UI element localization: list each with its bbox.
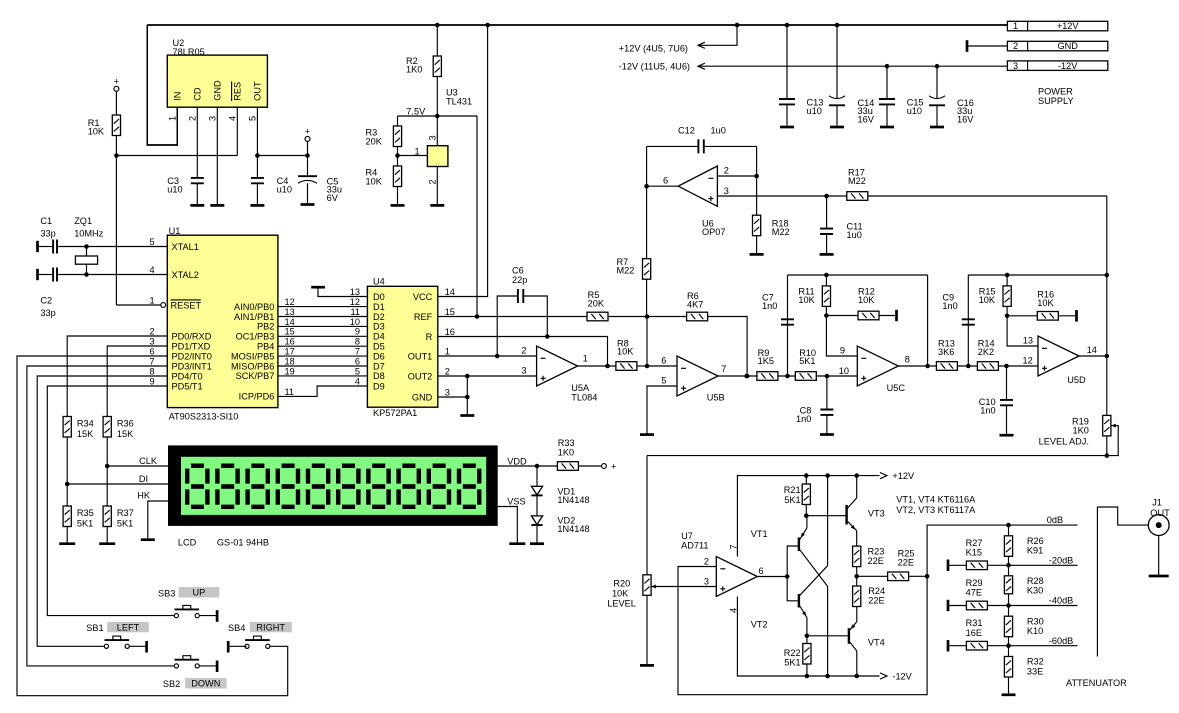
svg-text:7: 7: [728, 544, 738, 549]
wire U7 pin7 +12V: [737, 476, 879, 557]
svg-text:1n0: 1n0: [980, 406, 995, 416]
junction: [804, 513, 809, 518]
wire R34 to R35: [66, 437, 68, 506]
svg-text:R36: R36: [117, 419, 134, 429]
resistor R4 10K: [397, 147, 399, 167]
svg-text:VT2: VT2: [751, 619, 768, 629]
ground: [391, 204, 405, 207]
junction: [465, 374, 470, 379]
svg-text:6: 6: [759, 566, 764, 576]
junction: [744, 374, 749, 379]
transistor VT4: [848, 628, 850, 644]
svg-text:2: 2: [428, 179, 438, 184]
wire level rail: [647, 455, 1107, 457]
svg-text:1N4148: 1N4148: [557, 524, 589, 534]
svg-text:+: +: [305, 127, 310, 137]
ground: [301, 203, 315, 206]
resistor R14 2K2: [977, 362, 998, 371]
junction: [395, 153, 400, 158]
capacitor C13 u10: [786, 25, 788, 99]
wire U5A output: [578, 365, 616, 367]
capacitor C5 33u 6V: [307, 156, 309, 177]
button SB4 RIGHT: [227, 641, 230, 653]
wire R14 to U5D pin12: [998, 365, 1038, 367]
ground: [930, 126, 944, 129]
wire to REF: [476, 116, 478, 317]
wire U5B output: [718, 375, 757, 377]
junction: [1006, 523, 1011, 528]
svg-text:10: 10: [839, 366, 849, 376]
wire PD0 to R34 column: [67, 336, 167, 417]
svg-text:PB2: PB2: [257, 322, 274, 332]
svg-text:u10: u10: [807, 106, 822, 116]
ground: [1149, 575, 1169, 578]
svg-text:R: R: [426, 332, 433, 342]
resistor R33 1K0: [557, 462, 578, 471]
wire U3 pin1: [398, 155, 428, 157]
capacitor C9 1n0: [967, 319, 969, 366]
resistor R3 20K: [397, 116, 399, 126]
svg-text:OUT: OUT: [1150, 508, 1170, 518]
svg-text:VT2, VT3 KT6117A: VT2, VT3 KT6117A: [896, 505, 976, 515]
svg-text:VT3: VT3: [868, 509, 885, 519]
svg-text:13: 13: [285, 307, 295, 317]
ground: [141, 538, 155, 541]
svg-text:3: 3: [428, 135, 438, 140]
svg-text:LEFT: LEFT: [117, 622, 140, 632]
resistor R29 47E: [947, 600, 950, 611]
junction: [475, 314, 480, 319]
junction: [435, 23, 440, 28]
capacitor C14 33u 16V: [836, 25, 838, 98]
wire R2 to U3: [436, 77, 438, 146]
svg-text:6: 6: [663, 175, 668, 185]
wire VD2 to ground: [536, 525, 538, 544]
wire R15 to node: [1006, 306, 1008, 315]
ground: [99, 542, 115, 545]
capacitor C15 u10: [886, 66, 888, 99]
svg-text:33E: 33E: [1027, 666, 1043, 676]
svg-text:16: 16: [445, 327, 455, 337]
button SB1 LEFT: [104, 644, 108, 648]
junction: [535, 464, 540, 469]
svg-text:HK: HK: [137, 491, 151, 501]
svg-text:AIN0/PB0: AIN0/PB0: [234, 302, 274, 312]
svg-text:2: 2: [445, 366, 450, 376]
svg-text:R33: R33: [558, 438, 575, 448]
svg-text:14: 14: [285, 317, 295, 327]
junction: [645, 314, 650, 319]
svg-text:20K: 20K: [588, 298, 605, 308]
svg-text:+12V: +12V: [892, 471, 915, 481]
svg-text:ICP/PD6: ICP/PD6: [239, 392, 275, 402]
ground: [830, 126, 844, 129]
svg-text:2K2: 2K2: [978, 347, 994, 357]
svg-text:ZQ1: ZQ1: [74, 216, 92, 226]
svg-text:0dB: 0dB: [1047, 515, 1063, 525]
wire +12V top rail: [147, 24, 1007, 26]
svg-text:16V: 16V: [957, 114, 974, 124]
svg-text:AT90S2313-SI10: AT90S2313-SI10: [169, 412, 239, 422]
svg-text:12: 12: [350, 297, 360, 307]
svg-text:10K: 10K: [612, 588, 629, 598]
resistor R30 K10: [1008, 606, 1010, 617]
wire R11 to node: [825, 306, 827, 315]
resistor R2 1K0: [436, 25, 438, 56]
wire PD4 to SB1: [37, 376, 167, 646]
svg-text:11: 11: [350, 307, 360, 317]
ground: [820, 433, 834, 436]
svg-text:C1: C1: [40, 216, 52, 226]
svg-text:R34: R34: [77, 419, 94, 429]
svg-text:U1: U1: [169, 226, 181, 236]
svg-text:9: 9: [355, 327, 360, 337]
svg-text:GS-01 94HB: GS-01 94HB: [217, 538, 269, 548]
svg-text:10: 10: [350, 317, 360, 327]
junction: [785, 23, 790, 28]
svg-text:2: 2: [149, 326, 154, 336]
svg-text:1K5: 1K5: [758, 356, 774, 366]
svg-text:12: 12: [1022, 356, 1032, 366]
transistor VT1: [798, 538, 800, 552]
svg-text:K15: K15: [966, 547, 982, 557]
svg-text:14: 14: [1087, 345, 1097, 355]
wire GND stub: [966, 40, 969, 52]
ground: [530, 542, 544, 545]
wire +12V top rail: [147, 24, 1007, 26]
svg-text:PD0/RXD: PD0/RXD: [172, 331, 212, 341]
wire R5 to node: [608, 316, 647, 318]
wire -40dB line: [1009, 605, 1078, 607]
wire PD1 to R36 column: [107, 346, 167, 417]
ground: [1000, 434, 1014, 437]
svg-text:D4: D4: [373, 332, 385, 342]
resistor R12 10K: [826, 315, 858, 317]
svg-text:-40dB: -40dB: [1049, 596, 1074, 606]
svg-text:REF: REF: [414, 312, 433, 322]
capacitor C1 33p: [36, 241, 39, 252]
wire R17 to U5D feedback column: [1106, 196, 1108, 275]
wire OUT1 to U5A: [438, 355, 537, 357]
svg-text:15: 15: [285, 327, 295, 337]
wire PD3 to SB2: [27, 366, 174, 666]
wire R13-R14: [957, 365, 977, 367]
ground: [430, 204, 444, 207]
svg-text:10K: 10K: [858, 295, 875, 305]
svg-text:1K0: 1K0: [406, 65, 422, 75]
wire U2 pin3 to ground: [216, 107, 218, 205]
wire R9-R10: [778, 375, 795, 377]
junction: [1005, 314, 1010, 319]
svg-text:10K: 10K: [979, 295, 996, 305]
svg-text:VT4: VT4: [868, 637, 885, 647]
svg-text:17: 17: [285, 347, 295, 357]
svg-text:1n0: 1n0: [942, 301, 957, 311]
junction: [854, 574, 859, 579]
wire VT2/VT4 base node: [807, 635, 848, 637]
resistor R18 M22: [756, 176, 758, 215]
svg-text:C12: C12: [678, 126, 695, 136]
svg-text:1: 1: [167, 116, 177, 121]
svg-text:CLK: CLK: [139, 456, 158, 466]
wire -12V line: [698, 65, 1007, 67]
svg-text:UP: UP: [193, 588, 206, 598]
svg-text:3: 3: [724, 186, 729, 196]
resistor R10 5K1: [795, 372, 816, 381]
svg-text:MISO/PB6: MISO/PB6: [231, 361, 274, 371]
svg-text:15K: 15K: [77, 429, 94, 439]
wire pin5 to C5: [257, 155, 307, 157]
connector pin 1 +12V: [1007, 21, 1107, 31]
connector J1 OUT: [1148, 515, 1169, 536]
svg-text:D2: D2: [373, 312, 385, 322]
svg-text:K91: K91: [1027, 545, 1043, 555]
ground: [820, 253, 834, 256]
junction: [1105, 273, 1110, 278]
junction: [1005, 273, 1010, 278]
svg-text:VT1: VT1: [751, 529, 768, 539]
svg-text:K30: K30: [1027, 586, 1043, 596]
op-amp U5B: [677, 356, 718, 396]
svg-text:-60dB: -60dB: [1049, 636, 1074, 646]
capacitor C16 33u 16V: [936, 66, 938, 98]
wire U4 GND: [438, 396, 468, 398]
svg-text:R32: R32: [1027, 657, 1044, 667]
junction: [1006, 563, 1011, 568]
resistor R32 33E: [1008, 646, 1010, 657]
svg-text:33p: 33p: [40, 308, 55, 318]
resistor R6 4K7: [647, 316, 687, 318]
svg-text:D0: D0: [373, 292, 385, 302]
svg-text:C6: C6: [512, 266, 524, 276]
svg-text:LEVEL: LEVEL: [607, 599, 636, 609]
wire rail to R20: [646, 456, 648, 575]
svg-text:U4: U4: [373, 277, 385, 287]
junction: [805, 674, 810, 679]
resistor R7 M22: [643, 259, 651, 280]
wire +12V top rail: [147, 24, 1007, 26]
ground: [460, 414, 474, 417]
svg-text:-12V: -12V: [1058, 61, 1078, 71]
svg-text:LCD: LCD: [178, 538, 197, 548]
junction: [785, 374, 790, 379]
svg-text:18: 18: [285, 356, 295, 366]
svg-text:-12V (11U5, 4U6): -12V (11U5, 4U6): [619, 62, 690, 72]
svg-text:PD4/T0: PD4/T0: [172, 371, 203, 381]
wire +12V top rail: [147, 24, 1007, 26]
junction 7.5V node: [435, 114, 440, 119]
wire rail to U2 pin1 IN: [147, 25, 177, 145]
svg-text:VSS: VSS: [507, 496, 525, 506]
wire R feedback pin: [438, 337, 608, 367]
svg-text:SB2: SB2: [163, 679, 180, 689]
svg-text:10K: 10K: [798, 295, 815, 305]
svg-text:1: 1: [149, 295, 154, 305]
svg-text:1: 1: [583, 354, 588, 364]
svg-text:PB4: PB4: [257, 342, 274, 352]
ground: [210, 204, 224, 207]
svg-text:13: 13: [350, 287, 360, 297]
resistor R1 10K: [112, 115, 120, 136]
wire OUT2/GND to ground: [466, 376, 468, 416]
resistor R26 K91: [1008, 525, 1010, 536]
svg-text:33p: 33p: [40, 229, 55, 239]
svg-text:DOWN: DOWN: [191, 679, 220, 689]
svg-text:D7: D7: [373, 361, 385, 371]
wire U2 pin2 to C3: [196, 107, 198, 178]
svg-text:22E: 22E: [898, 558, 914, 568]
svg-text:15: 15: [445, 307, 455, 317]
junction: [824, 194, 829, 199]
svg-text:19: 19: [285, 366, 295, 376]
resistor R36 15K: [103, 417, 111, 438]
svg-text:RESET: RESET: [171, 300, 202, 310]
junction: [485, 23, 490, 28]
svg-text:14: 14: [445, 287, 455, 297]
svg-text:ATTENUATOR: ATTENUATOR: [1066, 678, 1127, 688]
wire U7 pin2 feedback: [678, 567, 927, 695]
svg-text:D6: D6: [373, 351, 385, 361]
DAC U4 KP572PA1: [367, 286, 437, 407]
svg-text:20K: 20K: [366, 136, 383, 146]
ground: [640, 664, 654, 667]
svg-text:4K7: 4K7: [687, 299, 703, 309]
junction: [305, 153, 310, 158]
wire U6 pin3: [717, 195, 846, 197]
svg-text:OUT1: OUT1: [408, 351, 433, 361]
junction: [465, 395, 470, 400]
svg-text:3: 3: [149, 336, 154, 346]
svg-text:1n0: 1n0: [796, 414, 811, 424]
svg-text:OC1/PB3: OC1/PB3: [236, 332, 275, 342]
svg-text:TL431: TL431: [446, 97, 472, 107]
wire U5D output: [1079, 355, 1107, 357]
wire U3 pin2 to ground: [436, 167, 438, 206]
junction: [735, 23, 740, 28]
terminal +: [578, 465, 601, 467]
junction: [495, 354, 500, 359]
svg-text:3: 3: [521, 366, 526, 376]
regulator U2 78LR05: [167, 55, 267, 107]
svg-text:1: 1: [1013, 21, 1018, 31]
svg-text:U5B: U5B: [707, 393, 725, 403]
wire U5D column to R19: [1106, 275, 1108, 415]
capacitor C4 u10: [251, 178, 264, 183]
ground: [780, 126, 794, 129]
svg-text:10K: 10K: [1037, 298, 1054, 308]
svg-text:4: 4: [228, 116, 238, 121]
svg-text:9: 9: [149, 376, 154, 386]
wire VDD: [498, 465, 558, 467]
svg-text:C2: C2: [40, 296, 52, 306]
junction: [1105, 453, 1110, 458]
wire R5/R7/R8 node: [646, 317, 648, 367]
svg-text:LEVEL ADJ.: LEVEL ADJ.: [1039, 437, 1089, 447]
svg-text:+: +: [611, 461, 616, 471]
svg-text:R37: R37: [117, 508, 134, 518]
wire stage1 feedback top: [788, 274, 928, 276]
svg-text:10K: 10K: [366, 176, 383, 186]
svg-text:1N4148: 1N4148: [557, 495, 589, 505]
svg-text:2: 2: [724, 166, 729, 176]
svg-text:OUT: OUT: [253, 81, 263, 101]
wire U5B pin5 to ground: [647, 386, 677, 435]
capacitor C8 1n0: [826, 376, 828, 410]
resistor R24 22E: [856, 576, 858, 586]
svg-text:16: 16: [285, 337, 295, 347]
svg-text:SB4: SB4: [228, 623, 245, 633]
wire rail to U2 pin1 IN: [147, 25, 177, 145]
wire VSS: [498, 507, 518, 544]
MCU U1 AT90S2313: [167, 235, 278, 407]
ground: [509, 542, 525, 545]
svg-text:R35: R35: [77, 508, 94, 518]
resistor R9 1K5: [757, 372, 778, 381]
connector pin 3 -12V: [1007, 61, 1107, 71]
svg-text:1n0: 1n0: [762, 301, 777, 311]
wire R19 bottom: [1106, 436, 1108, 456]
junction: [754, 174, 759, 179]
svg-text:DI: DI: [139, 474, 148, 484]
junction: [825, 473, 830, 478]
wire PD5 to SB3: [47, 386, 174, 616]
svg-text:KP572PA1: KP572PA1: [373, 408, 417, 418]
svg-text:22E: 22E: [868, 595, 884, 605]
junction: [855, 674, 860, 679]
svg-text:8: 8: [149, 366, 154, 376]
crystal ZQ1 10MHz: [86, 247, 88, 257]
resistor R8 10K: [616, 362, 637, 371]
svg-text:K10: K10: [1027, 626, 1043, 636]
junction: [1004, 364, 1009, 369]
connector pin 2 GND: [1007, 41, 1107, 51]
junction: [785, 574, 790, 579]
wire U2 pin4 RES: [236, 107, 238, 155]
wire 0dB line: [927, 525, 1077, 576]
svg-text:2: 2: [521, 346, 526, 356]
svg-text:15K: 15K: [117, 429, 134, 439]
svg-text:U5D: U5D: [1067, 375, 1086, 385]
resistor R34 15K: [63, 417, 71, 438]
svg-text:16V: 16V: [858, 114, 875, 124]
junction: [804, 473, 809, 478]
wire CLK: [107, 465, 168, 467]
svg-text:3: 3: [445, 387, 450, 397]
wire U7 pin4 -12V: [737, 597, 879, 677]
transistor VT2: [798, 594, 800, 608]
resistor R13 3K6: [936, 362, 957, 371]
ground: [190, 204, 204, 207]
junction: [1105, 354, 1110, 359]
wire U2 pin5 OUT down: [256, 107, 258, 178]
svg-text:7: 7: [355, 347, 360, 357]
capacitor C6 22p: [497, 296, 518, 356]
junction: [84, 272, 89, 277]
svg-text:6: 6: [355, 356, 360, 366]
junction: [824, 273, 829, 278]
svg-text:3: 3: [208, 116, 218, 121]
op-amp U5A TL084: [537, 346, 578, 386]
LCD module GS-01 94HB: [168, 445, 498, 526]
svg-text:3: 3: [1013, 61, 1018, 71]
transistor VT3: [845, 505, 847, 525]
svg-text:1u0: 1u0: [847, 230, 862, 240]
svg-text:RIGHT: RIGHT: [256, 622, 285, 632]
wire ICP to D9: [278, 386, 368, 396]
svg-text:4: 4: [149, 265, 154, 275]
LCD digits: [185, 464, 481, 510]
svg-text:1K0: 1K0: [1073, 425, 1089, 435]
